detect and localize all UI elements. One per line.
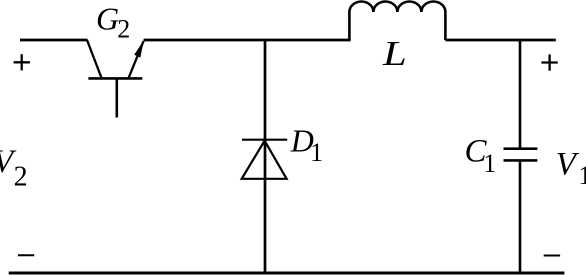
inductor L humps [349, 2, 445, 13]
wire capacitor branch lower [519, 160, 522, 273]
transistor Q (G2) base lead [116, 78, 119, 117]
wire diode branch vertical [264, 40, 267, 273]
inductor L left riser [348, 12, 351, 40]
capacitor C1 top plate [504, 147, 538, 150]
wire top-left [20, 39, 88, 42]
svg-text:1: 1 [310, 138, 323, 167]
svg-text:V: V [556, 147, 580, 183]
inductor L right riser [444, 12, 447, 40]
svg-text:L: L [382, 34, 407, 73]
svg-text:1: 1 [483, 149, 496, 178]
wire top-right [445, 39, 555, 42]
transistor Q (G2) emitter lead [128, 41, 143, 78]
transistor Q (G2) collector lead [87, 40, 102, 78]
minus sign right [544, 255, 560, 257]
wire bottom [9, 272, 565, 275]
minus sign left [18, 254, 34, 256]
transistor Q (G2) base bar [88, 77, 142, 80]
wire capacitor branch upper [519, 40, 522, 149]
plus sign right [541, 61, 557, 63]
diode D1 cathode bar [242, 139, 287, 141]
svg-text:2: 2 [14, 162, 28, 193]
capacitor C1 bottom plate [504, 159, 538, 162]
svg-text:1: 1 [579, 161, 586, 190]
plus sign left [14, 61, 30, 63]
transistor Q (G2) emitter arrowhead [134, 40, 144, 57]
svg-text:2: 2 [117, 15, 130, 44]
diode D1 triangle [242, 141, 287, 179]
svg-text:G: G [96, 1, 119, 37]
wire top-middle [144, 39, 351, 42]
